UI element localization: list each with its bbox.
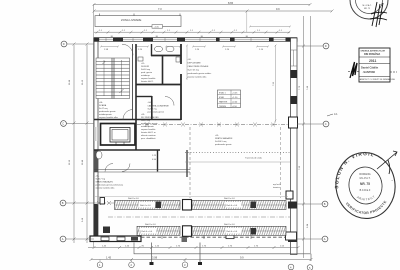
left exterior wall bbox=[94, 38, 98, 241]
axis C partition line (dash-dot with X) bbox=[137, 123, 289, 127]
center aisle dash-dot line bbox=[108, 216, 290, 218]
bottom curtain wall dashed line bbox=[141, 236, 286, 238]
svg-text:faianta H=2.1 m: faianta H=2.1 m bbox=[141, 131, 156, 134]
axis bubble C right bbox=[323, 121, 329, 127]
svg-text:-04-: -04- bbox=[148, 102, 152, 104]
svg-text:+3.05: +3.05 bbox=[232, 93, 238, 95]
axis bubble D left bbox=[61, 41, 67, 47]
svg-text:Raft 6 x 0.6: Raft 6 x 0.6 bbox=[227, 204, 238, 207]
svg-text:-05-: -05- bbox=[96, 176, 100, 178]
axis bubble B right bbox=[322, 201, 328, 207]
axis bubble stems bbox=[100, 260, 185, 263]
svg-text:-01-: -01- bbox=[141, 63, 145, 65]
svg-text:pardoseala gresie: pardoseala gresie bbox=[148, 111, 165, 114]
svg-text:Raft 8 x 0.6: Raft 8 x 0.6 bbox=[224, 223, 235, 226]
top exterior wall with windows bbox=[94, 37, 297, 41]
svg-text:TEREN: TEREN bbox=[219, 106, 227, 108]
svg-text:vopsea lavabila alba: vopsea lavabila alba bbox=[188, 77, 208, 79]
svg-text:-02-: -02- bbox=[188, 59, 192, 61]
svg-text:vopsea lavabila: vopsea lavabila bbox=[141, 129, 156, 131]
svg-text:Raft 8 x 0.6: Raft 8 x 0.6 bbox=[224, 197, 235, 200]
svg-text:11.45: 11.45 bbox=[82, 79, 84, 85]
signature scribble top right bbox=[370, 2, 387, 27]
round verifier stamp bbox=[332, 149, 400, 223]
svg-text:WC PERS. IMOBIL: WC PERS. IMOBIL bbox=[141, 117, 160, 119]
svg-text:SPATIU MAGAZIN: SPATIU MAGAZIN bbox=[215, 137, 233, 140]
svg-text:vopsea lavabila: vopsea lavabila bbox=[141, 78, 156, 80]
shelving band upper right bbox=[192, 200, 286, 209]
text block camera curatenie bbox=[148, 102, 170, 114]
svg-text:CAMERA CURATENIE: CAMERA CURATENIE bbox=[148, 105, 170, 108]
axis bubble D right bbox=[323, 43, 329, 49]
top dimension line 1 bbox=[93, 3, 312, 6]
svg-text:Raft 8 x 0.6: Raft 8 x 0.6 bbox=[145, 223, 156, 226]
axis bubble 3 bbox=[182, 262, 188, 268]
axis bubble A right bbox=[322, 236, 328, 242]
svg-text:pardoseala gresie: pardoseala gresie bbox=[141, 122, 158, 125]
svg-text:-0.50: -0.50 bbox=[232, 106, 238, 108]
svg-text:-05-: -05- bbox=[215, 135, 219, 137]
svg-text:4.1: 4.1 bbox=[334, 112, 338, 116]
svg-text:-03-: -03- bbox=[141, 114, 145, 116]
WC pers imobil room walls bbox=[94, 150, 187, 177]
svg-text:termica: termica bbox=[273, 186, 281, 189]
svg-text:Raft 4 x 0.6: Raft 4 x 0.6 bbox=[140, 204, 151, 207]
svg-text:SCARA: SCARA bbox=[99, 104, 107, 107]
svg-text:NR. 75: NR. 75 bbox=[364, 8, 371, 10]
svg-text:B: B bbox=[324, 202, 326, 206]
hall text right bbox=[245, 157, 281, 190]
interior room block walls (top sanitary rooms) bbox=[94, 44, 181, 150]
exterior porch line bottom bbox=[134, 243, 311, 262]
top dimension line 2 bbox=[93, 10, 334, 13]
svg-text:M.L.P.A.T.: M.L.P.A.T. bbox=[363, 4, 372, 7]
svg-text:antiderapanta: antiderapanta bbox=[141, 125, 155, 128]
axis bubble 2 bbox=[129, 262, 135, 268]
svg-text:Daniel Cătălin: Daniel Cătălin bbox=[361, 66, 379, 70]
svg-text:9.9: 9.9 bbox=[240, 256, 244, 260]
bottom right corner bracket bbox=[286, 232, 297, 240]
svg-text:1.45: 1.45 bbox=[106, 256, 112, 260]
svg-text:A: A bbox=[62, 237, 64, 241]
svg-text:Raft 6 x 0.6: Raft 6 x 0.6 bbox=[227, 230, 238, 233]
svg-text:-06-: -06- bbox=[99, 102, 103, 104]
axis bubble 5 bbox=[307, 265, 313, 270]
svg-text:antiderapanta: antiderapanta bbox=[99, 113, 113, 116]
text block depozitare room bbox=[188, 59, 212, 79]
svg-text:ARHITECT CU DREPT DE SEMNATURA: ARHITECT CU DREPT DE SEMNATURA bbox=[360, 78, 396, 81]
svg-text:obiecte sanitare: obiecte sanitare bbox=[141, 134, 157, 137]
svg-text:11.95: 11.95 bbox=[69, 159, 71, 165]
floor edge line above bands bbox=[95, 196, 288, 198]
svg-text:DEPOZITARE: DEPOZITARE bbox=[188, 62, 202, 65]
room label spatiu magazin (center) bbox=[215, 135, 233, 146]
svg-text:ETAJ 1: ETAJ 1 bbox=[219, 92, 227, 95]
column in upper band right bbox=[251, 202, 257, 209]
door arc stair entry bbox=[123, 110, 133, 120]
wall pilaster left at B axis bbox=[100, 198, 105, 205]
extension line to axis 3 bbox=[150, 243, 154, 266]
loading canopy outline (ZONA LIVRARE) bbox=[95, 14, 181, 27]
WC pers imobil toilet bbox=[96, 151, 102, 159]
svg-text:pardoseala gresie antider.: pardoseala gresie antider. bbox=[188, 72, 212, 75]
svg-text:mp luchi: mp luchi bbox=[273, 184, 281, 186]
svg-text:7.3: 7.3 bbox=[158, 7, 162, 11]
interior window dimension numbers bbox=[104, 49, 264, 51]
door arcs WC rooms bbox=[105, 164, 113, 172]
signature next to title block bbox=[348, 62, 397, 78]
svg-text:+1.50: +1.50 bbox=[232, 97, 238, 99]
axis bubble A left bbox=[60, 236, 66, 242]
svg-text:ROMANIA: ROMANIA bbox=[359, 173, 371, 176]
axis bubble 1 bbox=[97, 262, 103, 268]
dotted line across hall bbox=[185, 152, 290, 154]
svg-text:A: A bbox=[324, 237, 326, 241]
canopy dimension line bbox=[94, 31, 290, 34]
interior window dimension ticks bbox=[100, 46, 269, 48]
column in upper band left bbox=[156, 202, 162, 209]
axis bubble C left bbox=[61, 121, 67, 127]
bottom dimension line 2 bbox=[90, 258, 313, 261]
svg-text:antiderap.: antiderap. bbox=[141, 74, 151, 77]
axis bubble B left bbox=[60, 200, 66, 206]
+1.05 level box bbox=[152, 25, 163, 29]
short dim line over right wall top bbox=[249, 26, 291, 28]
svg-text:B: B bbox=[62, 201, 64, 205]
curtain wall mullion ticks bbox=[162, 236, 251, 240]
svg-text:DUSURI: DUSURI bbox=[141, 66, 149, 68]
svg-text:SPATIU MAGAZIN: SPATIU MAGAZIN bbox=[96, 181, 114, 184]
svg-text:11.60: 11.60 bbox=[69, 79, 71, 85]
WC fixtures top rooms bbox=[138, 46, 180, 62]
top right stamp (cut) bbox=[350, 0, 388, 27]
canopy end extension line bbox=[246, 11, 248, 32]
left wall dark segment bbox=[94, 204, 98, 236]
canopy dim numbers bbox=[99, 30, 283, 38]
axis bubble 4 bbox=[288, 264, 294, 270]
svg-text:DIN ROMÂNIA: DIN ROMÂNIA bbox=[364, 53, 380, 56]
svg-text:11.80: 11.80 bbox=[82, 159, 84, 165]
svg-text:S=417 mq: S=417 mq bbox=[96, 179, 106, 181]
door arc top-left entry bbox=[122, 44, 133, 55]
right dimension chains bbox=[297, 16, 323, 258]
svg-text:+1.05: +1.05 bbox=[154, 27, 160, 29]
svg-text:C: C bbox=[325, 122, 327, 126]
interior dim line at x 187 bbox=[186, 45, 188, 81]
corridor boundary double line bbox=[94, 170, 190, 173]
left wall window at stair bbox=[94, 127, 97, 141]
svg-text:S=4.1 mq: S=4.1 mq bbox=[141, 120, 151, 122]
svg-text:M.L.P.A.T.: M.L.P.A.T. bbox=[360, 177, 371, 180]
svg-text:S=8.6 mq: S=8.6 mq bbox=[141, 69, 151, 71]
column between lower bands bbox=[183, 226, 192, 237]
stair room label bbox=[99, 102, 119, 119]
shelving band lower right bbox=[192, 226, 286, 235]
right exterior wall bbox=[286, 38, 298, 255]
svg-text:pardoseala gresie: pardoseala gresie bbox=[215, 143, 232, 146]
svg-text:-SANTONI: -SANTONI bbox=[363, 70, 376, 74]
svg-text:8.65: 8.65 bbox=[228, 1, 234, 5]
svg-text:B.C.D.E.F: B.C.D.E.F bbox=[360, 189, 371, 192]
svg-text:Raft 8 x 0.6: Raft 8 x 0.6 bbox=[128, 197, 139, 200]
svg-text:pardoseala gresie portelanata: pardoseala gresie portelanata bbox=[96, 184, 124, 187]
elevator shaft bbox=[101, 124, 136, 146]
svg-text:D: D bbox=[63, 42, 65, 46]
thin line across hall bbox=[185, 161, 290, 163]
svg-text:S=17.05 mq: S=17.05 mq bbox=[188, 70, 200, 72]
svg-text:ETAJ: ETAJ bbox=[219, 96, 224, 99]
svg-text:9.9: 9.9 bbox=[276, 7, 280, 11]
svg-text:faianta H=2.1: faianta H=2.1 bbox=[141, 80, 154, 83]
bottom dimension chain numbers bbox=[102, 245, 285, 247]
svg-text:S=17 mq: S=17 mq bbox=[99, 108, 108, 110]
shelving band lower left bbox=[137, 226, 180, 235]
text block spatiu magazin big bbox=[96, 176, 124, 190]
svg-text:2011: 2011 bbox=[369, 59, 376, 63]
door arc camera curatenie bbox=[165, 97, 174, 106]
level legend table bbox=[218, 90, 241, 108]
svg-text:C: C bbox=[62, 122, 64, 126]
vertical dashed line right hall bbox=[280, 127, 282, 198]
vertical dashed line bbox=[189, 127, 191, 198]
interior vertical dimension line bbox=[275, 45, 277, 123]
svg-text:3.08: 3.08 bbox=[152, 256, 158, 260]
svg-text:pardoseala gresie: pardoseala gresie bbox=[99, 110, 116, 113]
svg-text:CANOTIERE PEDALE: CANOTIERE PEDALE bbox=[188, 65, 210, 68]
svg-text:ZONA LIVRARE: ZONA LIVRARE bbox=[121, 18, 141, 22]
note 4.1 with arrow bbox=[327, 112, 338, 116]
staircase bbox=[96, 58, 130, 99]
svg-text:pard. gresie: pard. gresie bbox=[141, 71, 153, 74]
bottom wall column box mid bbox=[226, 234, 234, 239]
title block stamp bbox=[359, 48, 395, 82]
svg-text:S=200.5 mq: S=200.5 mq bbox=[215, 141, 227, 143]
bottom wall column axis 3 bbox=[182, 237, 188, 243]
bottom dimension chain 1 bbox=[88, 246, 300, 249]
svg-text:NR. 75: NR. 75 bbox=[360, 182, 370, 186]
svg-text:PARTER: PARTER bbox=[219, 100, 228, 103]
extension line mid bbox=[198, 243, 202, 266]
svg-text:Traversta de unda: Traversta de unda bbox=[245, 157, 263, 160]
svg-text:Raft 4 x 0.6: Raft 4 x 0.6 bbox=[142, 230, 153, 233]
left extension line bbox=[93, 4, 95, 247]
pen stroke over stamp bbox=[377, 151, 397, 169]
svg-text:pers. dizabilitati: pers. dizabilitati bbox=[141, 137, 156, 140]
left dimension chains bbox=[66, 43, 94, 244]
svg-text:S=5.9 mq: S=5.9 mq bbox=[148, 109, 158, 111]
svg-text:vopsea lavabila alba: vopsea lavabila alba bbox=[96, 188, 116, 190]
svg-text:±0.00: ±0.00 bbox=[232, 101, 238, 103]
dark fixture lower left bbox=[103, 227, 110, 234]
shelving band upper left bbox=[115, 200, 181, 209]
column between upper bands bbox=[183, 200, 192, 211]
svg-text:D: D bbox=[325, 44, 327, 48]
text block dusuri room bbox=[141, 63, 156, 83]
entrance vestibule bottom-left bbox=[90, 236, 141, 242]
B axis dash line bbox=[94, 201, 287, 205]
text WC pers imobil bbox=[141, 114, 160, 161]
column in lower band right bbox=[251, 228, 257, 235]
